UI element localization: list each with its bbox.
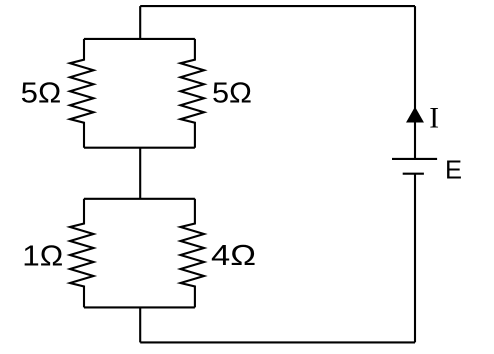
svg-text:5Ω: 5Ω: [212, 78, 252, 110]
resistor R1 5ohm left: [70, 39, 94, 148]
resistor R2 5ohm right: [181, 39, 205, 148]
svg-text:1Ω: 1Ω: [22, 241, 63, 273]
wire block2 top edge: [84, 198, 195, 200]
svg-text:4Ω: 4Ω: [211, 240, 256, 272]
wire block1 top edge: [84, 38, 195, 40]
svg-text:5Ω: 5Ω: [21, 78, 62, 110]
current arrow: [407, 108, 423, 122]
resistor R3 1ohm left: [70, 199, 94, 308]
svg-text:I: I: [429, 103, 439, 135]
wire bottom connector: [139, 307, 141, 342]
wire block2 bottom edge: [84, 306, 195, 308]
wire right lower: [414, 174, 416, 343]
wire middle connector: [139, 148, 141, 199]
wire bottom: [140, 341, 415, 343]
wire right upper: [414, 6, 416, 159]
resistor R4 4ohm right: [181, 199, 205, 308]
battery E plate long: [392, 158, 437, 160]
wire top: [140, 5, 415, 7]
battery E plate short: [403, 173, 424, 175]
wire top connector: [139, 6, 141, 39]
svg-text:E: E: [445, 157, 462, 185]
wire block1 bottom edge: [84, 147, 195, 149]
